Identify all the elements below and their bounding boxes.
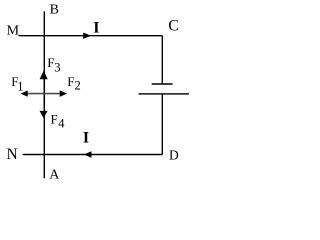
force label F3 [47,55,60,75]
current arrow I on bottom rail [84,151,92,157]
current label I (bottom) [83,130,89,147]
svg-text:2: 2 [75,79,81,93]
svg-text:I: I [83,130,89,147]
force arrow F1 (left, gray shaft) [21,90,45,96]
node M label [7,23,20,38]
svg-text:I: I [93,19,99,36]
battery top plate (short) [152,83,173,85]
node D label [169,148,179,163]
node C label [168,17,178,34]
force arrow F2 (right, gray shaft) [44,90,67,97]
svg-text:4: 4 [58,117,65,131]
force arrow F3 (up) [40,71,48,94]
svg-text:F: F [51,112,58,127]
force label F1 [11,74,23,94]
svg-text:N: N [7,146,18,163]
wire C to battery top plate (right rail upper) [161,36,163,84]
node A label [49,168,60,183]
current label I (top) [93,19,99,36]
force label F2 [67,74,80,93]
svg-text:A: A [49,168,60,183]
wire N-D (bottom rail) [23,154,163,156]
svg-text:C: C [168,17,178,34]
node B label [50,2,59,17]
wire battery bottom plate to D (right rail lower) [161,95,163,155]
current arrow I on top rail [83,33,91,39]
svg-text:B: B [50,2,59,17]
svg-text:M: M [7,23,20,38]
battery bottom plate (long) [139,93,190,95]
force arrow F4 (down) [40,93,48,118]
svg-text:1: 1 [17,80,23,94]
node N label [7,146,18,163]
svg-text:D: D [169,148,179,163]
wire M-C (top rail) [19,35,163,37]
svg-text:F: F [67,74,74,89]
force label F4 [51,112,66,131]
conducting rod AB (vertical) [43,11,45,178]
svg-text:3: 3 [54,60,60,74]
